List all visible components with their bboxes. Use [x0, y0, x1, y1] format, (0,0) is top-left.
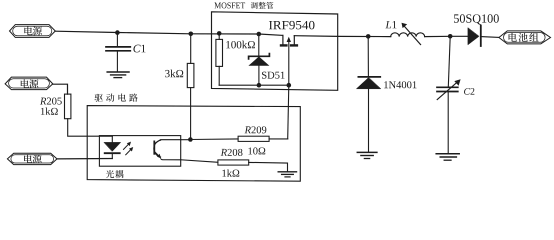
label R205 value 1kOhm — [41, 108, 58, 115]
ground for C2 — [436, 154, 459, 161]
capacitor C2 variable — [437, 36, 461, 153]
resistor R205 — [65, 94, 113, 136]
label L1 — [385, 21, 396, 28]
node junction freewheel diode — [366, 34, 371, 39]
power source label 电源 bottom-left — [7, 153, 57, 164]
label SD51 — [262, 72, 285, 79]
ground for C1 — [107, 72, 129, 78]
label 1N4001 — [384, 81, 416, 88]
wire R208 to ground — [249, 162, 288, 171]
wire collector to R209 — [190, 138, 238, 141]
resistor 3kOhm — [187, 34, 194, 140]
resistor 100kOhm — [216, 33, 223, 85]
wire drain out to L1 — [294, 35, 390, 38]
LED optocoupler emitter diode — [104, 136, 121, 158]
label MOSFET 调整管 — [214, 2, 245, 8]
node junction SD51 gate rail — [257, 83, 262, 88]
diode 1N4001 — [356, 36, 380, 152]
diode SD51 Schottky — [249, 34, 270, 85]
light arrows of LED — [124, 142, 134, 155]
power source label 电源 top-left — [10, 25, 56, 38]
diode 50SQ100 output Schottky — [468, 26, 499, 47]
node junction 3k pull-up — [189, 32, 194, 37]
label 3kOhm — [165, 70, 183, 78]
transistor IRF9540 P-MOSFET — [280, 35, 298, 85]
node junction collector / 3k — [188, 137, 193, 142]
label 50SQ100 — [454, 14, 499, 24]
label R208 value 1kOhm — [222, 169, 239, 176]
optocoupler box — [99, 136, 180, 167]
power source label 电源 middle-left — [5, 77, 53, 90]
MOSFET regulator block box — [212, 12, 338, 91]
inductor L1 (adjustable) — [391, 33, 425, 37]
label C1 — [133, 45, 145, 53]
resistor R208 — [218, 160, 249, 165]
ground for 1N4001 — [357, 152, 377, 158]
wire emitter to R208 — [181, 160, 218, 163]
transistor optocoupler phototransistor — [154, 140, 181, 160]
battery pack label 电池组 — [499, 31, 551, 44]
label 光耦 — [106, 170, 114, 178]
wire R209 to gate line — [269, 138, 288, 140]
label 10Ohm — [248, 147, 265, 154]
driver circuit block box — [87, 106, 300, 182]
resistor R209 — [238, 136, 269, 141]
label C2 — [464, 88, 474, 95]
label R205 — [40, 98, 62, 105]
label 驱动电路 — [94, 94, 102, 102]
ground in driver box — [278, 172, 296, 177]
node junction C2 — [448, 34, 453, 39]
wire collector out of opto — [181, 139, 191, 141]
label IRF9540 — [269, 21, 315, 29]
label R209 — [245, 126, 267, 133]
label R208 — [221, 149, 243, 156]
node junction 100k top — [217, 31, 222, 36]
label 100kOhm — [226, 41, 255, 49]
wire L1 to 50SQ100 — [425, 35, 468, 37]
node junction gate rail end — [287, 83, 292, 88]
wire gate rail (bottom rail in box) — [219, 84, 289, 86]
capacitor C1 — [106, 33, 130, 72]
wire vin2 to R205 — [52, 84, 67, 94]
wire gate down to driver — [288, 85, 289, 139]
node junction C1 — [115, 30, 120, 35]
wire main top rail — [55, 31, 283, 35]
node junction SD51 top — [257, 32, 262, 37]
wire vin3 to LED cathode — [57, 158, 112, 160]
